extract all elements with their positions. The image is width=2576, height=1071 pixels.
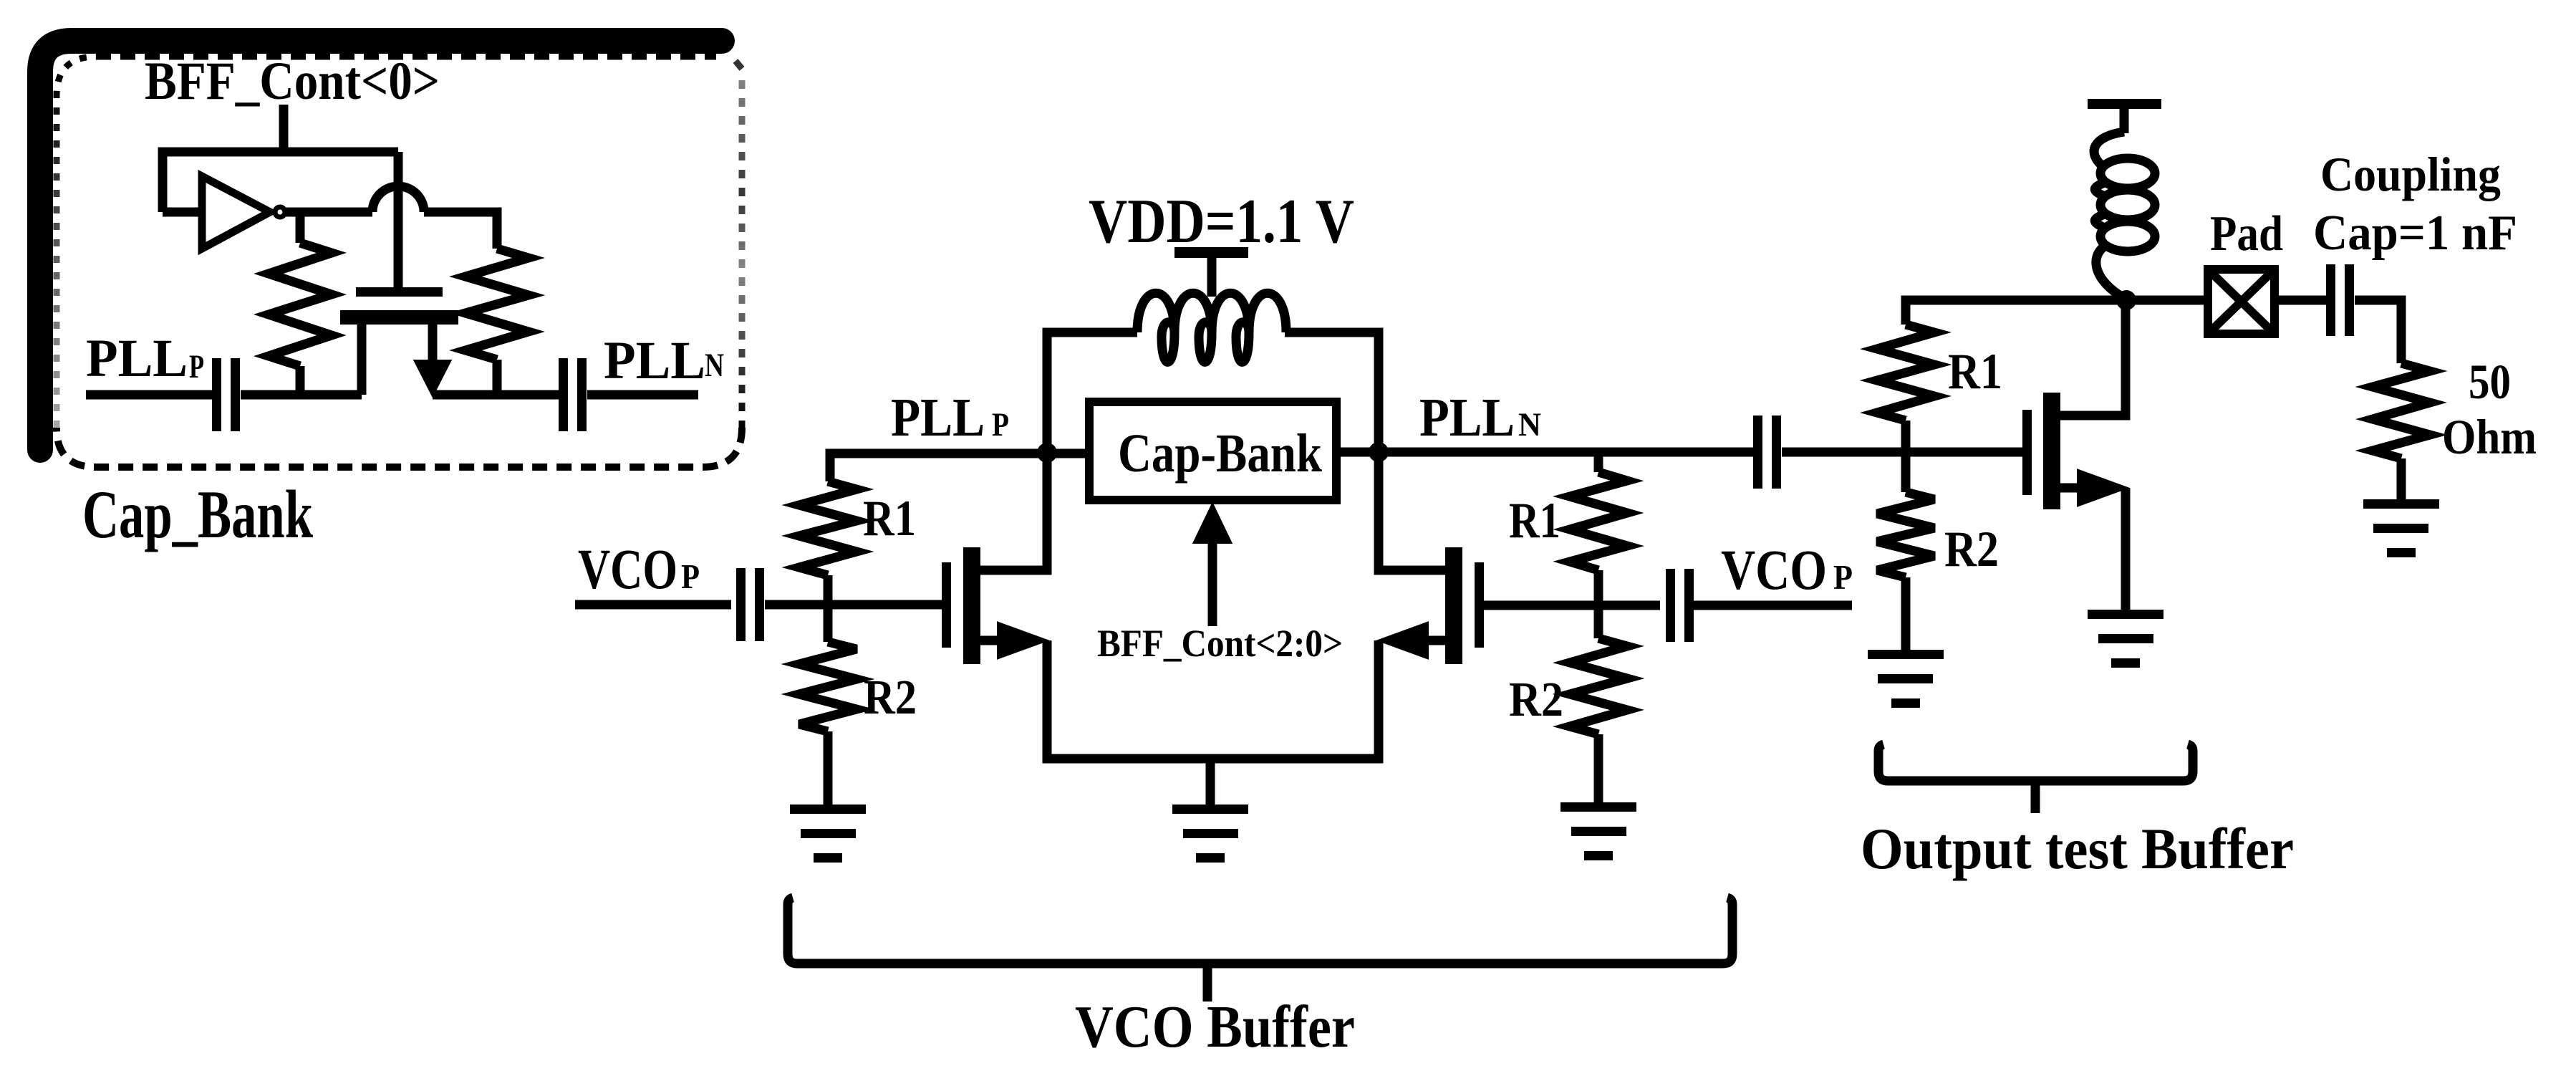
inductor L2 (vertical) (2094, 132, 2124, 167)
brace Output test Buffer (1878, 744, 2193, 781)
svg-text:VCO Buffer: VCO Buffer (1075, 994, 1355, 1060)
svg-text:R1: R1 (863, 491, 916, 547)
arrow BFF_Cont<2:0> (1208, 539, 1217, 626)
svg-text:P: P (992, 406, 1009, 443)
node drain (output) (2116, 290, 2136, 310)
wire source down (output) (2121, 488, 2131, 610)
wire drain row (1906, 300, 2208, 325)
wire gate stem M1 (394, 152, 403, 287)
svg-text:VDD=1.1 V: VDD=1.1 V (1089, 187, 1354, 256)
wire PLLN (inset) (587, 390, 698, 400)
wire gate (output) (1782, 448, 2022, 457)
svg-text:Output test Buffer: Output test Buffer (1861, 816, 2294, 881)
resistor R2 right (1570, 638, 1627, 734)
wire Cap-Bank to PLLN (1336, 448, 1753, 457)
power supply bar (1174, 247, 1248, 258)
ground (right R2) (1560, 802, 1636, 812)
wire inverter output (286, 208, 372, 217)
wire rail to ground (1206, 759, 1215, 805)
svg-text:R1: R1 (1948, 344, 2002, 400)
capacitor coupling cap=1nF (2326, 264, 2335, 336)
resistor left (inset) (269, 243, 332, 366)
wire cap to 50ohm (2355, 300, 2401, 363)
svg-text:VCO: VCO (1721, 539, 1827, 602)
svg-text:P: P (189, 348, 204, 385)
inverter U1 (202, 176, 270, 249)
svg-text:Ohm: Ohm (2442, 410, 2537, 464)
inductor L1 (1137, 293, 1286, 362)
svg-text:PLL: PLL (86, 329, 188, 388)
transistor M2 (left) (942, 562, 951, 648)
capacitor VCOP left (736, 568, 746, 641)
resistor R1 left (799, 481, 857, 575)
svg-text:N: N (1518, 406, 1541, 443)
wire cap to gate left (765, 600, 942, 610)
transistor M1 (MOS varactor) (356, 287, 443, 297)
svg-text:PLL: PLL (604, 331, 705, 390)
svg-text:R2: R2 (1509, 672, 1563, 726)
svg-text:Cap_Bank: Cap_Bank (82, 476, 313, 552)
resistor R1 (output) (1877, 325, 1934, 421)
capacitor PLLN (inset) (559, 358, 568, 431)
resistor R1 right (1570, 472, 1627, 570)
capacitor PLLP (inset) (212, 358, 221, 431)
wire M1 right leg to PLLN cap (433, 390, 559, 400)
ground (50 Ohm) (2363, 499, 2439, 509)
wire PLLP (inset) (86, 390, 212, 400)
resistor R2 left (799, 642, 857, 731)
wire pad to cap (2274, 296, 2326, 305)
svg-text:Cap=1 nF: Cap=1 nF (2313, 206, 2517, 261)
transistor M4 (output) (2022, 410, 2032, 495)
wire crossover hump (372, 186, 424, 212)
wire VCOP right (1694, 601, 1852, 610)
power supply bar (output) (2088, 99, 2161, 109)
capacitor VCOP right (1666, 569, 1675, 642)
svg-text:P: P (681, 557, 700, 596)
transistor M3 (right) (1475, 562, 1484, 648)
svg-text:Coupling: Coupling (2320, 147, 2501, 201)
block Cap-Bank (1089, 402, 1336, 500)
capacitor coupling (PLLN to output) (1753, 416, 1762, 489)
ground (left R2) (790, 805, 866, 814)
svg-text:R2: R2 (864, 670, 917, 724)
svg-text:Pad: Pad (2210, 206, 2283, 261)
node PLLN (1369, 442, 1389, 462)
svg-text:PLL: PLL (891, 388, 985, 448)
resistor right (inset) (465, 249, 529, 360)
ground (output source) (2088, 610, 2163, 619)
svg-text:PLL: PLL (1419, 388, 1515, 448)
svg-text:N: N (705, 347, 724, 384)
wire tank top (1047, 332, 1137, 453)
resistor R2 (output) (1877, 492, 1934, 577)
svg-text:R2: R2 (1944, 522, 1999, 577)
inset shadow band (40, 41, 722, 450)
svg-text:50: 50 (2469, 355, 2511, 409)
ground (center) (1172, 805, 1248, 814)
node PLLP (1037, 443, 1057, 463)
wire inverter input (163, 208, 202, 217)
wire gate right (1484, 601, 1660, 610)
ground (output R2) (1868, 650, 1944, 659)
svg-text:Cap-Bank: Cap-Bank (1118, 423, 1323, 484)
svg-text:VCO: VCO (578, 539, 677, 601)
pad symbol (2208, 269, 2274, 334)
svg-text:R1: R1 (1509, 493, 1560, 549)
wire feedback loop (163, 152, 398, 212)
wire cap to M1 left leg (241, 390, 362, 400)
wire VCOP left (575, 600, 731, 610)
wire BFF_Cont<0> stem (279, 105, 289, 152)
wire PLLP row (830, 453, 1089, 481)
wire source rail (1047, 640, 1379, 759)
svg-text:BFF_Cont<2:0>: BFF_Cont<2:0> (1097, 622, 1343, 665)
brace VCO Buffer (788, 898, 1732, 964)
svg-text:BFF_Cont<0>: BFF_Cont<0> (145, 52, 440, 111)
resistor 50 Ohm (2373, 363, 2430, 458)
svg-text:P: P (1833, 557, 1853, 597)
